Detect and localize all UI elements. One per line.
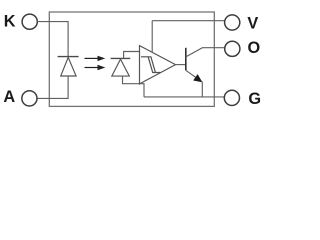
svg-text:O: O [248,39,261,57]
wire amp output to transistor base [176,64,186,66]
wire K to LED cathode [37,22,68,57]
svg-text:A: A [3,88,15,106]
hysteresis symbol [141,57,160,73]
transistor Q1 collector [186,48,225,57]
pin V terminal circle [225,15,240,30]
svg-text:K: K [4,13,16,31]
photodiode PD cathode bar [111,57,131,59]
ground rail to pin G [144,96,224,98]
amplifier U1 triangle [140,46,176,84]
svg-text:V: V [247,15,258,33]
transistor Q1 base bar [185,48,187,71]
wire LED anode to pin A [37,76,68,98]
pin A terminal circle [22,91,37,106]
light arrow lower [85,65,106,70]
LED D1 triangle [61,57,76,76]
wire V rail to pin V [152,20,225,22]
pin G terminal circle [224,90,239,105]
pin K terminal circle [22,14,37,29]
svg-text:G: G [248,90,261,108]
wire photodiode anode to ground rail [123,76,145,97]
wire photodiode cathode to amp input [124,52,140,59]
package outline [49,12,214,106]
transistor Q1 emitter with arrow [186,70,199,79]
pin O terminal circle [225,41,240,56]
photodiode PD triangle [112,59,130,76]
wire Vcc supply drop to amp [151,21,153,53]
light arrow upper [85,56,106,61]
LED D1 cathode bar [58,56,79,58]
wire emitter to ground rail [201,82,203,97]
